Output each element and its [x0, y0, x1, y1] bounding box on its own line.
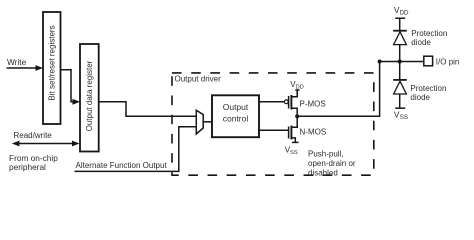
svg-text:Protection: Protection — [411, 29, 447, 38]
power VSS at protection diode bottom — [394, 108, 408, 121]
power VDD at P-MOS source — [290, 80, 304, 91]
svg-text:Protection: Protection — [410, 84, 446, 93]
svg-text:SS: SS — [400, 114, 408, 121]
transistor P-MOS — [289, 90, 298, 116]
dashed box Output driver — [172, 73, 374, 175]
label Output driver — [175, 75, 222, 84]
svg-text:peripheral: peripheral — [9, 162, 46, 172]
label Read/write — [14, 131, 53, 140]
wire output data register to mux upper input — [99, 102, 197, 116]
pin I/O pin square — [424, 56, 433, 66]
svg-text:Read/write: Read/write — [14, 131, 53, 140]
svg-text:diode: diode — [410, 93, 430, 102]
wire Write arrow into bit set/reset registers — [7, 65, 43, 71]
label From on-chip peripheral — [9, 153, 58, 172]
svg-text:P-MOS: P-MOS — [300, 99, 326, 108]
svg-text:Output: Output — [223, 102, 249, 112]
block Output control — [212, 95, 259, 137]
svg-text:Write: Write — [7, 57, 27, 67]
register Bit set/reset registers — [43, 12, 61, 124]
wire Alternate Function Output line to mux lower input — [75, 127, 197, 172]
svg-text:I/O pin: I/O pin — [436, 57, 460, 66]
svg-text:open-drain or: open-drain or — [308, 159, 356, 168]
node junction at protection diode column — [398, 59, 402, 63]
svg-text:Bit set/reset registers: Bit set/reset registers — [47, 25, 56, 100]
power VDD at protection diode top — [394, 5, 409, 31]
diode protection diode lower — [393, 62, 407, 108]
diode protection diode upper — [393, 31, 407, 62]
wire I/O line to pin — [380, 61, 424, 63]
wire mux output to output control — [203, 121, 212, 123]
svg-text:SS: SS — [290, 150, 298, 156]
label Alternate Function Output — [76, 161, 168, 170]
label Protection diode lower — [410, 84, 446, 102]
svg-text:Output data register: Output data register — [85, 60, 94, 131]
label N-MOS — [300, 128, 327, 137]
svg-text:Push-pull,: Push-pull, — [308, 149, 344, 158]
wire from bit set/reset registers to output data register — [61, 70, 80, 105]
svg-text:N-MOS: N-MOS — [300, 128, 327, 137]
label Protection diode upper — [411, 29, 447, 47]
node junction at I/O line left — [378, 60, 382, 64]
svg-text:disabled: disabled — [308, 168, 338, 177]
label P-MOS — [300, 99, 326, 108]
wire drain junction to I/O pin column — [297, 62, 379, 117]
node drain junction — [295, 114, 299, 118]
svg-text:Output driver: Output driver — [175, 75, 222, 84]
wire Read/write bidirectional arrow — [12, 141, 80, 147]
mux selector trapezoid — [196, 110, 203, 134]
svg-text:control: control — [223, 113, 249, 123]
wire output control to N-MOS gate — [259, 129, 288, 131]
label Push-pull, open-drain or disabled — [308, 149, 356, 177]
register Output data register — [80, 44, 99, 152]
power VSS at N-MOS source — [285, 142, 299, 156]
wire output control to P-MOS gate with inversion bubble — [259, 100, 288, 104]
label Write — [7, 57, 27, 67]
svg-text:Alternate Function Output: Alternate Function Output — [76, 161, 168, 170]
label I/O pin — [436, 57, 460, 66]
transistor N-MOS — [289, 116, 298, 142]
svg-text:diode: diode — [411, 38, 431, 47]
svg-text:DD: DD — [400, 9, 409, 16]
svg-text:DD: DD — [296, 85, 304, 91]
